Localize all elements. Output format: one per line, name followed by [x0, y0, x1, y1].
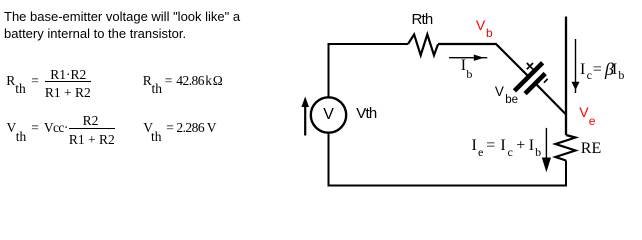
label Vbe: [495, 85, 504, 99]
description text: [4, 9, 240, 42]
wire: battery to node Ve: [537, 85, 567, 115]
battery V_be plate short: [525, 74, 545, 94]
fraction denominator R1 + R2: [45, 86, 91, 100]
voltage source V circle: [311, 97, 346, 132]
formula Vth definition: [7, 121, 17, 135]
wire: collector vertical: [565, 17, 567, 136]
node Vb label: [476, 18, 485, 32]
wire: emitter to bottom and back to source: [329, 134, 567, 186]
fraction numerator R1·R2: [50, 68, 86, 82]
current arrow Ic: [575, 39, 577, 93]
label Ib: [461, 58, 466, 74]
fraction numerator R2: [83, 114, 99, 128]
label Rth: [412, 12, 433, 27]
label Ic = beta Ib: [580, 62, 585, 78]
fraction bar: [45, 81, 91, 82]
label V in source circle: [323, 107, 334, 123]
resistor RE: [556, 135, 576, 161]
fraction bar: [69, 128, 115, 129]
formula Rth value: [143, 74, 152, 88]
fraction denominator R1 + R2: [69, 133, 115, 147]
node Ve label: [579, 105, 588, 119]
battery V_be plate long: [514, 63, 542, 91]
current arrow Ie: [545, 128, 547, 159]
label Vth: [356, 106, 376, 121]
formula Rth definition: [6, 74, 15, 88]
formula Vth value: [143, 121, 153, 135]
wire: from source top up and right to resistor Rth: [329, 44, 409, 97]
label RE: [581, 141, 601, 157]
wire: resistor to node Vb corner then diagonal to battery: [438, 44, 529, 77]
resistor Rth: [408, 34, 438, 55]
battery minus mark: [544, 79, 548, 83]
current arrow Ib: [449, 57, 487, 59]
source arrow up: [304, 104, 306, 136]
battery plus mark: [527, 63, 533, 69]
label Ie = Ic + Ib: [472, 138, 477, 154]
